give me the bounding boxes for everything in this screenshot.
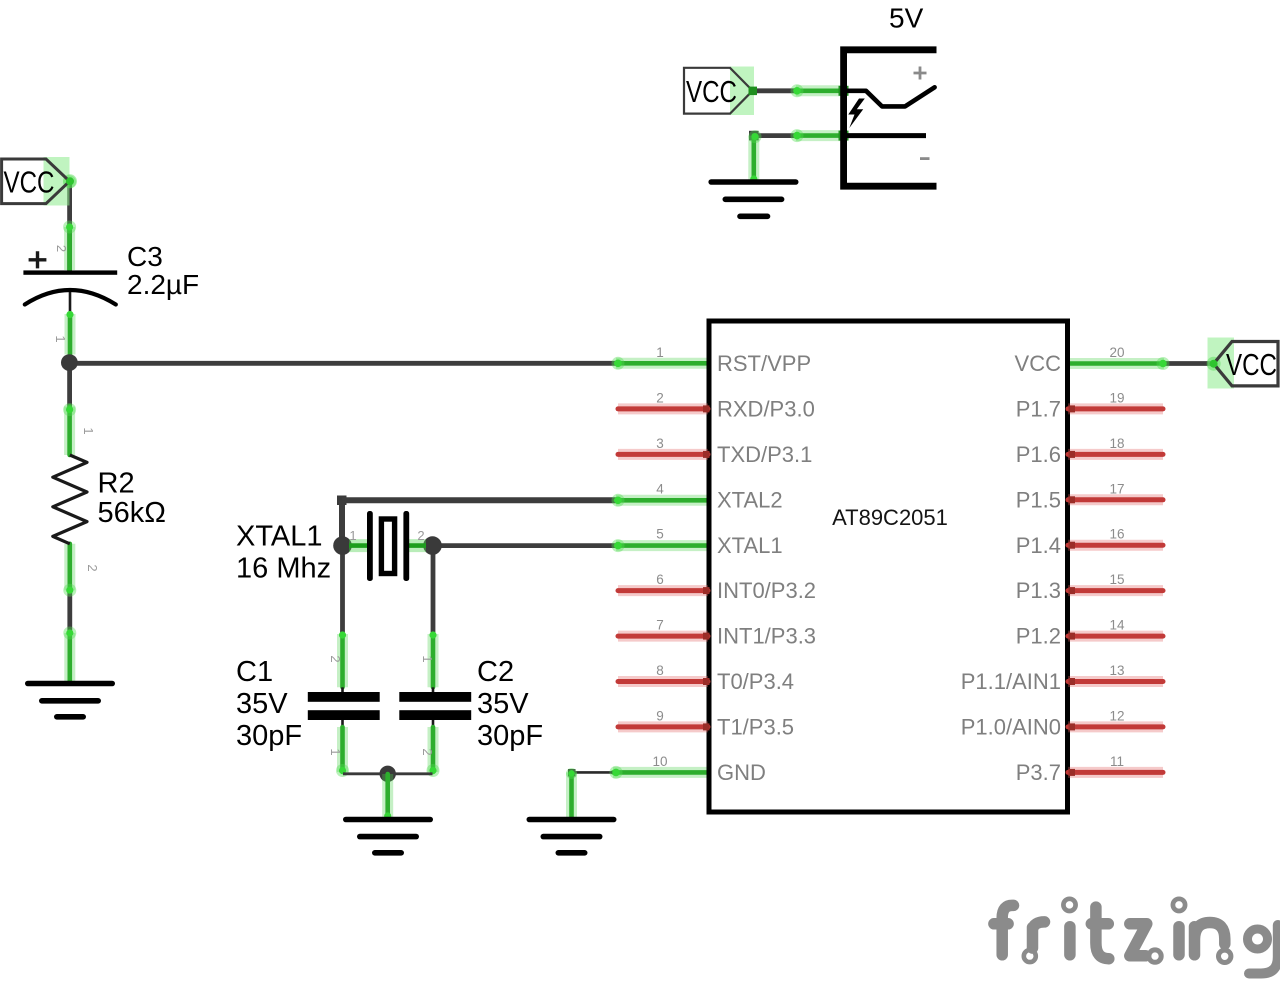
svg-text:2.2µF: 2.2µF: [127, 269, 199, 300]
fritzing logo letter r: [1033, 922, 1045, 948]
svg-text:3: 3: [656, 436, 664, 451]
wire battery minus to ground: [749, 129, 849, 182]
wire red stub pin 12: [1068, 723, 1163, 730]
svg-text:P1.4: P1.4: [1016, 533, 1061, 558]
wire XTAL1 pin2 down to C2: [429, 553, 436, 693]
pin 8 label T0/P3.4: [656, 663, 794, 694]
wire red stub pin 16: [1068, 542, 1163, 549]
svg-text:56kΩ: 56kΩ: [98, 497, 166, 529]
pin 12 label P1.0/AIN0: [961, 708, 1125, 739]
pin 19 label P1.7: [1016, 390, 1125, 421]
fritzing logo letter z: [1130, 924, 1147, 956]
IC U1 AT89C2051 body: [709, 321, 1068, 812]
svg-text:P1.7: P1.7: [1016, 397, 1061, 422]
svg-text:P3.7: P3.7: [1016, 760, 1061, 785]
fritzing logo letter g: [1248, 929, 1268, 949]
svg-text:18: 18: [1109, 436, 1124, 451]
battery 5V supply: [844, 50, 937, 186]
wire green overlay VCC1-C3: [63, 175, 76, 270]
svg-text:TXD/P3.1: TXD/P3.1: [717, 442, 812, 467]
svg-text:16: 16: [1109, 527, 1124, 542]
pin 2 label RXD/P3.0: [656, 390, 815, 421]
pin 20 label VCC: [1015, 345, 1125, 376]
svg-text:2: 2: [85, 564, 100, 571]
wire red stub pin 9: [618, 723, 710, 730]
svg-text:VCC: VCC: [1015, 351, 1062, 376]
svg-text:P1.0/AIN0: P1.0/AIN0: [961, 715, 1061, 740]
svg-text:16 Mhz: 16 Mhz: [236, 553, 331, 585]
fritzing logo letter f: [994, 905, 1014, 954]
WIRES-LAYER: [61, 84, 1214, 819]
wire XTAL2 net: corner to IC pin4: [337, 494, 707, 538]
svg-text:2: 2: [656, 390, 664, 405]
wire IC pin20 to VCC3: [1068, 357, 1214, 370]
pin 3 label TXD/P3.1: [656, 436, 812, 467]
ground GND1 left: [28, 684, 112, 717]
wire XTAL1 pin1 down to C1: [339, 553, 346, 693]
power label VCC1 flag: [2, 157, 77, 206]
fritzing logo letter i1: [1063, 899, 1075, 911]
svg-text:13: 13: [1109, 663, 1124, 678]
svg-text:2: 2: [328, 655, 343, 662]
svg-text:7: 7: [656, 618, 664, 633]
svg-text:P1.1/AIN1: P1.1/AIN1: [961, 669, 1061, 694]
wire node A to IC pin1 RST/VPP: [69, 357, 707, 370]
pin 9 label T1/P3.5: [656, 708, 794, 739]
wire red stub pin 14: [1068, 633, 1163, 640]
capacitor C3 polarized: [23, 251, 117, 304]
svg-text:10: 10: [652, 754, 667, 769]
svg-text:1: 1: [349, 528, 356, 543]
svg-text:5: 5: [656, 527, 664, 542]
wire red stub pin 2: [618, 405, 710, 412]
svg-text:12: 12: [1109, 708, 1124, 723]
wire C1 pin1 down to node B: [336, 720, 349, 778]
svg-text:INT1/P3.3: INT1/P3.3: [717, 624, 816, 649]
svg-text:1: 1: [656, 345, 664, 360]
pin 5 label XTAL1: [656, 527, 782, 558]
capacitor C1: [308, 692, 380, 720]
svg-text:2: 2: [420, 748, 435, 755]
capacitor C2: [399, 692, 471, 720]
wire VCC2 to battery plus: [753, 84, 849, 97]
crystal XTAL1: [333, 511, 442, 581]
pin 4 label XTAL2: [656, 481, 782, 512]
wire red stub pin 7: [618, 633, 710, 640]
ground GND4 under IC pin10: [529, 820, 613, 853]
wire C2 pin2 down to node B: [427, 720, 440, 778]
svg-text:4: 4: [656, 481, 664, 496]
wire XTAL1 pin2 to IC pin5: [433, 539, 708, 552]
power label VCC3 flag: [1207, 338, 1278, 389]
wire C3 pin1 to node A: [66, 290, 73, 355]
pin 10 label GND: [652, 754, 765, 785]
fritzing logo letter t: [1091, 907, 1109, 959]
svg-text:30pF: 30pF: [477, 720, 543, 752]
svg-text:19: 19: [1109, 390, 1124, 405]
ground GND2 battery: [711, 182, 796, 216]
svg-text:XTAL2: XTAL2: [717, 487, 783, 512]
wire red stub pin 15: [1068, 587, 1163, 594]
svg-text:T0/P3.4: T0/P3.4: [717, 669, 794, 694]
wire red stub pin 8: [618, 678, 710, 685]
pin 11 label P3.7: [1016, 754, 1124, 785]
fritzing logo letter i2: [1173, 899, 1185, 911]
wire VCC1 to C3 pin2: [67, 181, 72, 271]
svg-text:2: 2: [54, 245, 69, 252]
resistor R2: [53, 455, 87, 544]
svg-text:INT0/P3.2: INT0/P3.2: [717, 578, 816, 603]
svg-text:T1/P3.5: T1/P3.5: [717, 715, 794, 740]
wire node B horizontal: [343, 772, 433, 775]
svg-text:R2: R2: [98, 468, 135, 500]
svg-text:1: 1: [420, 655, 435, 662]
svg-text:GND: GND: [717, 760, 766, 785]
wire IC pin10 GND to ground: [566, 766, 707, 818]
pin 6 label INT0/P3.2: [656, 572, 816, 603]
svg-text:P1.3: P1.3: [1016, 578, 1061, 603]
svg-text:6: 6: [656, 572, 664, 587]
svg-text:14: 14: [1109, 618, 1125, 633]
pin 17 label P1.5: [1016, 481, 1125, 512]
svg-text:20: 20: [1109, 345, 1124, 360]
ground GND3 under C1 C2: [346, 820, 430, 853]
wire red stub pin 3: [618, 451, 710, 458]
pin 13 label P1.1/AIN1: [961, 663, 1125, 694]
svg-text:C3: C3: [127, 241, 163, 272]
svg-text:35V: 35V: [477, 688, 529, 720]
svg-text:8: 8: [656, 663, 664, 678]
wire red stub pin 13: [1068, 678, 1163, 685]
pin 7 label INT1/P3.3: [656, 618, 816, 649]
pin 16 label P1.4: [1016, 527, 1125, 558]
svg-text:11: 11: [1110, 754, 1124, 769]
svg-text:C2: C2: [477, 656, 514, 688]
svg-text:XTAL1: XTAL1: [717, 533, 783, 558]
svg-text:15: 15: [1109, 572, 1124, 587]
svg-text:RXD/P3.0: RXD/P3.0: [717, 397, 815, 422]
node B junction dot: [380, 766, 396, 782]
svg-text:VCC: VCC: [686, 74, 737, 109]
svg-text:17: 17: [1109, 481, 1124, 496]
pin 1 label RST/VPP: [656, 345, 811, 376]
svg-text:9: 9: [656, 708, 664, 723]
svg-text:AT89C2051: AT89C2051: [832, 505, 948, 530]
fritzing logo letter n: [1195, 923, 1225, 955]
wire red stub pin 11: [1068, 769, 1163, 776]
LOGO-LAYER: [994, 899, 1278, 974]
pin 18 label P1.6: [1016, 436, 1125, 467]
wire R2 pin2 to ground: [63, 544, 76, 682]
svg-text:RST/VPP: RST/VPP: [717, 351, 811, 376]
svg-text:1: 1: [81, 427, 96, 434]
svg-text:P1.6: P1.6: [1016, 442, 1061, 467]
wire red stub pin 6: [618, 587, 710, 594]
svg-text:P1.2: P1.2: [1016, 624, 1061, 649]
svg-text:35V: 35V: [236, 688, 288, 720]
svg-text:VCC: VCC: [4, 165, 55, 200]
wire node A to R2 pin1: [63, 368, 76, 455]
svg-text:1: 1: [53, 335, 68, 342]
svg-text:5V: 5V: [889, 3, 924, 34]
pin 14 label P1.2: [1016, 618, 1125, 649]
pin 15 label P1.3: [1016, 572, 1125, 603]
node A junction dot: [61, 354, 78, 371]
svg-text:C1: C1: [236, 656, 273, 688]
svg-text:2: 2: [417, 528, 424, 543]
svg-text:1: 1: [328, 748, 343, 755]
power label VCC2 flag: [684, 67, 757, 116]
wire node B to ground: [384, 774, 391, 820]
svg-text:30pF: 30pF: [236, 720, 302, 752]
svg-text:XTAL1: XTAL1: [236, 521, 323, 553]
svg-text:P1.5: P1.5: [1016, 487, 1061, 512]
svg-text:VCC: VCC: [1226, 347, 1277, 382]
wire red stub pin 18: [1068, 451, 1163, 458]
wire red stub pin 19: [1068, 405, 1163, 412]
wire red stub pin 17: [1068, 496, 1163, 503]
